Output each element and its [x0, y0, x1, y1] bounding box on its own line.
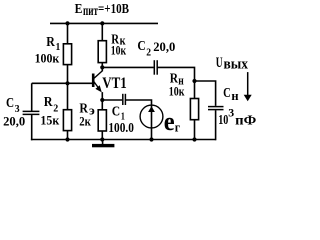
svg-text:С: С	[112, 105, 120, 120]
wire output node to Cn corner	[195, 81, 216, 106]
wire Rk bottom / collector vertical	[101, 63, 103, 72]
svg-text:н: н	[231, 88, 239, 103]
svg-text:VT1: VT1	[102, 75, 127, 92]
node collector	[100, 65, 104, 69]
wire input column lower	[31, 115, 33, 140]
svg-text:пФ: пФ	[235, 113, 256, 128]
label Cn value 10^3 pF	[218, 106, 256, 129]
label eg	[164, 107, 180, 136]
svg-text:100к: 100к	[35, 50, 60, 65]
svg-text:С: С	[223, 86, 231, 101]
generator circle eg	[140, 105, 163, 128]
svg-text:2: 2	[146, 46, 151, 58]
node bottom generator	[149, 137, 153, 141]
label C2	[137, 39, 175, 58]
svg-text:пит: пит	[83, 3, 98, 18]
svg-text:15к: 15к	[40, 113, 59, 128]
wire collector node to C2	[102, 66, 153, 68]
label Rn	[169, 72, 185, 99]
node top rail R1	[65, 21, 69, 25]
node top rail Rk	[100, 21, 104, 25]
svg-text:3: 3	[228, 106, 234, 120]
svg-text:20,0: 20,0	[153, 39, 175, 54]
node bottom R3/ground	[100, 137, 104, 141]
wire Cn bottom	[215, 110, 217, 140]
wire Rn top	[194, 81, 196, 99]
node output	[192, 79, 196, 83]
generator arrow	[148, 106, 155, 112]
wire R1 bottom to base node	[67, 65, 69, 84]
transistor VT1 collector diagonal	[94, 71, 102, 79]
node bottom R2	[65, 137, 69, 141]
svg-text:20,0: 20,0	[3, 114, 25, 129]
output arrow Uvyh	[244, 72, 252, 101]
transistor VT1 base bar	[92, 74, 95, 88]
svg-text:R: R	[44, 95, 54, 110]
svg-text:100.0: 100.0	[108, 120, 134, 135]
svg-text:10к: 10к	[111, 43, 127, 58]
label Rk	[111, 32, 127, 57]
label Epit=+10V	[75, 2, 129, 18]
wire Rn bottom	[194, 120, 196, 140]
transistor VT1 emitter diagonal	[94, 82, 100, 90]
capacitor C3	[23, 111, 40, 114]
label Cn	[223, 86, 239, 103]
ground	[92, 140, 114, 148]
svg-text:R: R	[46, 35, 55, 50]
svg-text:г: г	[175, 120, 180, 135]
wire bottom rail	[31, 139, 216, 141]
wire R2 top	[67, 83, 69, 109]
wire R3 bottom	[101, 131, 103, 140]
wire input column upper	[31, 83, 33, 111]
wire emitter vertical	[101, 92, 103, 110]
svg-text:U: U	[216, 55, 223, 71]
wire R1 top	[67, 23, 69, 43]
wire base	[32, 82, 93, 84]
svg-text:10к: 10к	[169, 84, 185, 99]
resistor Rn	[190, 99, 198, 120]
node bottom Rn	[192, 137, 196, 141]
label Uvyh	[216, 55, 249, 73]
wire emitter node to C1	[102, 99, 122, 101]
svg-text:С: С	[6, 96, 14, 111]
wire Rk top	[101, 23, 103, 40]
node base	[65, 81, 69, 85]
label R2	[40, 95, 59, 128]
capacitor Cn	[208, 107, 224, 110]
node emitter	[100, 98, 104, 102]
label R1	[35, 35, 61, 65]
label R3 (Re)	[79, 101, 95, 128]
resistor R3	[98, 110, 106, 131]
resistor R2	[63, 110, 71, 131]
resistor R1	[63, 44, 71, 65]
wire R2 bottom	[67, 131, 69, 140]
wire C2 to output corner	[158, 67, 195, 81]
label C1	[108, 105, 134, 135]
wire generator bottom	[151, 105, 153, 139]
transistor VT1 emitter arrow	[95, 85, 101, 92]
resistor Rk	[98, 41, 106, 63]
wire top rail	[50, 22, 158, 24]
label C3	[3, 96, 25, 129]
svg-text:вых: вых	[224, 56, 249, 72]
svg-text:Е: Е	[75, 2, 83, 17]
svg-text:=+10В: =+10В	[98, 2, 129, 17]
wire C1 to generator	[126, 100, 152, 105]
svg-text:2к: 2к	[79, 114, 91, 129]
svg-text:е: е	[164, 107, 175, 136]
capacitor C2	[154, 60, 157, 74]
svg-text:10: 10	[218, 113, 228, 128]
svg-text:С: С	[137, 39, 145, 54]
capacitor C1	[123, 94, 126, 105]
